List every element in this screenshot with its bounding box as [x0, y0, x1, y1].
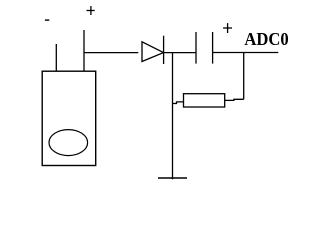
capacitor left plate	[195, 32, 197, 64]
wire mic positive lead	[83, 30, 85, 71]
wire ADC0 node down to resistor	[243, 53, 245, 100]
wire diode to capacitor	[164, 52, 196, 54]
ground	[158, 177, 187, 179]
minus label	[45, 19, 49, 21]
wire mic to diode	[84, 52, 138, 54]
node ADC0	[244, 29, 288, 49]
plus label (mic positive)	[87, 6, 95, 15]
wire branch down to resistor and ground	[172, 53, 174, 180]
wire resistor right lead	[225, 99, 244, 100]
wire capacitor to ADC0	[213, 52, 279, 54]
plus label (capacitor polarity)	[223, 23, 232, 33]
microphone body	[42, 71, 95, 165]
svg-text:ADC0: ADC0	[244, 29, 288, 49]
microphone diaphragm	[49, 130, 88, 156]
diode D1	[142, 36, 164, 64]
wire mic negative lead	[55, 44, 57, 71]
wire resistor left lead	[173, 102, 184, 104]
resistor R1	[184, 94, 225, 107]
capacitor right plate	[212, 32, 214, 64]
